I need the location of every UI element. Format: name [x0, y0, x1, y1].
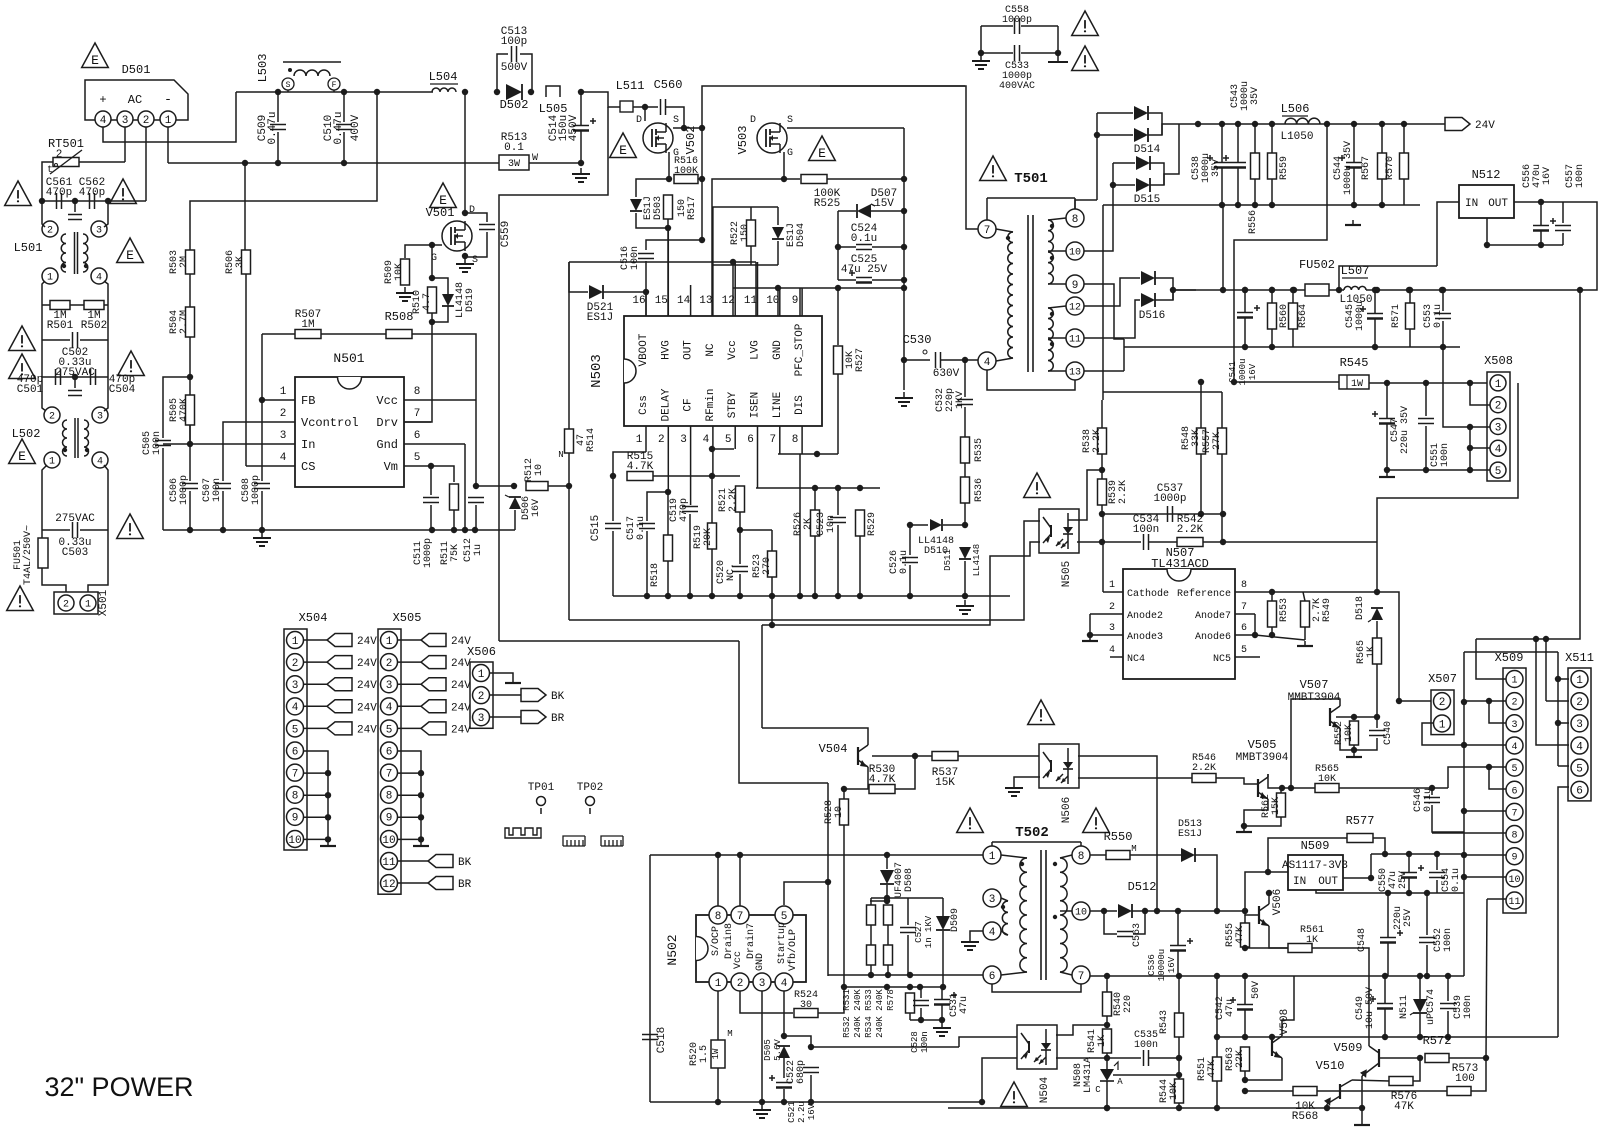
- label C524: [851, 223, 878, 245]
- wire x1558 wire: [1557, 652, 1559, 766]
- capacitor Y-cap: [68, 215, 82, 220]
- junction: [901, 176, 907, 182]
- junction: [187, 527, 193, 533]
- T502 pin 3: [983, 889, 1001, 907]
- svg-text:1: 1: [715, 978, 722, 990]
- label R561: [1300, 925, 1324, 946]
- wire c515 leads: [612, 476, 614, 521]
- resistor R539 2.2K: [1098, 479, 1107, 505]
- wire c536 b: [1177, 951, 1179, 976]
- wire C514 leads: [580, 92, 582, 125]
- capacitor C532 220p: [957, 400, 973, 405]
- wire n512 in wire: [1437, 202, 1459, 266]
- label C505: [142, 431, 163, 455]
- svg-text:X507: X507: [1428, 672, 1457, 686]
- connector X508: [1484, 354, 1513, 481]
- wire c526 t: [909, 525, 911, 555]
- diode D513 ES1J: [1181, 848, 1195, 862]
- svg-text:12: 12: [382, 879, 395, 891]
- wire c558 top2: [1021, 25, 1058, 27]
- ground gnd x505: [413, 841, 429, 846]
- label C513v: [501, 62, 528, 74]
- label R538: [1082, 429, 1103, 453]
- junction: [1198, 379, 1204, 385]
- wire r567 l: [1381, 124, 1383, 153]
- label R524: [794, 990, 818, 1011]
- junction rail 1037: [1382, 1034, 1388, 1040]
- inductor L507: [1344, 286, 1366, 290]
- wire mid stub2: [74, 377, 76, 388]
- wire c533 row: [981, 52, 1013, 54]
- label R559: [1279, 156, 1290, 180]
- svg-text:47u: 47u: [959, 996, 970, 1014]
- svg-text:3: 3: [122, 115, 129, 127]
- junction x828: [825, 879, 831, 885]
- wire v509 e gnd: [1361, 1076, 1363, 1120]
- capacitor C536 10000u 16V: [1170, 938, 1193, 951]
- svg-text:240K: 240K: [853, 989, 863, 1011]
- wire n504 tr emit: [982, 1058, 1017, 1102]
- resistor R501 1M: [50, 301, 70, 310]
- svg-text:10: 10: [766, 295, 779, 307]
- IC N507: [1123, 569, 1235, 679]
- svg-text:F: F: [332, 81, 337, 90]
- capacitor C541 1000u 16V: [1237, 305, 1260, 318]
- svg-text:Vm: Vm: [384, 460, 398, 474]
- capacitor C501 470p: [56, 369, 61, 385]
- svg-text:IN: IN: [1465, 198, 1478, 210]
- wire n504 tr col: [959, 1037, 1017, 1047]
- label C544: [1333, 141, 1354, 195]
- label C527: [914, 915, 934, 948]
- label D516: [1139, 310, 1165, 322]
- junction rail1108: [1104, 1105, 1110, 1111]
- junction x504 bus: [325, 792, 331, 798]
- svg-text:Css: Css: [638, 395, 650, 415]
- svg-text:5: 5: [292, 724, 299, 736]
- wire v507 emitter: [1340, 731, 1354, 750]
- label C538: [1191, 153, 1222, 183]
- svg-text:V507: V507: [1300, 678, 1329, 692]
- resistor R562 15K: [1277, 793, 1286, 817]
- wire r563 b: [1244, 1071, 1246, 1080]
- wire gate chain down: [431, 313, 433, 334]
- junction: [1382, 851, 1388, 857]
- wire r557 top row: [1103, 391, 1222, 393]
- svg-text:-: -: [164, 92, 172, 107]
- label R531 R533 R578 row: [842, 989, 896, 1011]
- svg-text:RT501: RT501: [48, 137, 84, 151]
- T501 phase dot primary: [1006, 236, 1010, 240]
- svg-text:4.7K: 4.7K: [869, 774, 896, 786]
- svg-text:E: E: [18, 449, 26, 464]
- label R506: [225, 250, 246, 274]
- resistor R564: [1289, 303, 1298, 329]
- svg-text:4: 4: [1576, 741, 1583, 753]
- svg-text:S: S: [673, 115, 679, 126]
- capacitor C510 0.47u: [336, 125, 352, 130]
- label N508: [1073, 1057, 1094, 1093]
- label C537: [1153, 483, 1186, 505]
- wire x509 p11 wire: [1487, 898, 1506, 900]
- wire c522 row right: [811, 1046, 959, 1048]
- wire x504 pin8 wire: [304, 816, 328, 818]
- svg-text:8: 8: [1072, 214, 1079, 226]
- svg-text:ES1J: ES1J: [587, 312, 613, 324]
- winding L502 left: [63, 420, 68, 456]
- wire anode67 join: [1254, 614, 1256, 635]
- svg-text:BR: BR: [458, 879, 472, 891]
- junction: [737, 852, 743, 858]
- svg-text:1: 1: [989, 851, 996, 863]
- junction on gnd rail: [769, 593, 775, 599]
- wire r561 right: [1312, 948, 1369, 1046]
- junction r540: [1104, 973, 1110, 979]
- pin 6 X509: [1506, 781, 1523, 798]
- junction on 24V rail: [1379, 121, 1385, 127]
- wire c557 l2: [1562, 233, 1564, 245]
- svg-text:R549: R549: [1322, 598, 1333, 622]
- wire n508 a row: [1113, 1074, 1179, 1076]
- connector X507: [1428, 672, 1457, 735]
- wire x505 pin11 wire: [398, 860, 428, 862]
- wire rail 1108: [948, 1107, 1362, 1109]
- wire t501 prim top: [996, 229, 1013, 232]
- winding L501 right: [83, 234, 88, 272]
- junction: [1176, 1105, 1182, 1111]
- svg-text:100K: 100K: [674, 166, 698, 177]
- svg-text:7: 7: [414, 408, 421, 420]
- junction: [907, 972, 913, 978]
- wire n504 led bot: [1056, 1057, 1107, 1059]
- label R542: [1177, 514, 1204, 536]
- pin 2 N503 (DELAY): [667, 426, 669, 492]
- T502 phase dots: [1020, 862, 1024, 866]
- svg-text:47K: 47K: [1235, 926, 1246, 944]
- junction: [1467, 380, 1473, 386]
- wire r577 right: [1373, 838, 1385, 854]
- junction: [907, 522, 913, 528]
- label C516: [620, 246, 641, 270]
- svg-text:0.1u: 0.1u: [1451, 868, 1462, 892]
- resistor R535: [961, 437, 970, 463]
- svg-text:6: 6: [414, 430, 421, 442]
- wire c554 b: [1436, 880, 1438, 893]
- junction: [1110, 182, 1116, 188]
- junction: [1467, 467, 1473, 473]
- wire RT501 left lead: [42, 162, 53, 201]
- wire r529 b: [859, 536, 861, 596]
- resistor R555 47K: [1241, 923, 1250, 947]
- svg-text:4.7K: 4.7K: [627, 461, 654, 473]
- wire d515 top row: [1113, 162, 1135, 164]
- wire c533 row2: [1021, 52, 1058, 54]
- symbol warning W12: [1028, 700, 1055, 725]
- label R549: [1312, 598, 1333, 622]
- svg-text:24V: 24V: [357, 680, 377, 692]
- wire rail 975 t502: [828, 974, 983, 976]
- wire rfmin stub2: [712, 448, 734, 450]
- wire x509 p8 wire: [1432, 832, 1506, 834]
- junction x504 bus: [325, 814, 331, 820]
- capacitor C546 0.1u: [1424, 798, 1440, 803]
- wire rect riser: [1096, 113, 1098, 200]
- L502 pin 4: [92, 452, 108, 468]
- svg-text:2: 2: [478, 691, 485, 703]
- junction on gnd rail: [709, 593, 715, 599]
- wire d508 down: [886, 885, 888, 901]
- junction: [835, 285, 841, 291]
- junction: [259, 527, 265, 533]
- svg-text:NC4: NC4: [1127, 654, 1145, 665]
- junction: [1279, 785, 1285, 791]
- wire x508 345 vert: [1469, 427, 1471, 470]
- junction rail 1037: [1417, 1034, 1423, 1040]
- junction on gnd rail 2: [1235, 202, 1241, 208]
- svg-text:5: 5: [1495, 466, 1502, 478]
- connector X501: [54, 592, 98, 614]
- capacitor C512 1u: [468, 498, 484, 503]
- label C521: [787, 1101, 817, 1123]
- junction: [699, 237, 705, 243]
- svg-text:R578: R578: [886, 989, 896, 1011]
- junction: [1288, 785, 1294, 791]
- junction: [1461, 874, 1467, 880]
- label C546: [1413, 788, 1434, 812]
- wire d507 right: [871, 210, 904, 212]
- wire ladder left: [837, 211, 839, 280]
- svg-text:24V: 24V: [357, 636, 377, 648]
- wire pin3 up: [104, 201, 108, 227]
- junction: [341, 160, 347, 166]
- svg-text:S: S: [787, 115, 793, 126]
- svg-text:10: 10: [834, 806, 845, 818]
- junction: [1406, 890, 1412, 896]
- svg-text:13: 13: [699, 295, 712, 307]
- wire v502 gate down: [668, 152, 670, 179]
- transistor V505 (V505): [1258, 774, 1268, 802]
- label C548b: [1393, 906, 1414, 930]
- label R555: [1225, 923, 1246, 947]
- wire c525 row: [838, 279, 856, 281]
- svg-text:3: 3: [292, 680, 299, 692]
- wire L501 pin4 down: [104, 281, 108, 305]
- label RT501 pin2: [56, 149, 63, 161]
- wire ref sense loop: [1377, 383, 1518, 592]
- svg-text:13: 13: [1069, 368, 1081, 379]
- label R501: [47, 310, 74, 332]
- wire C514 leads b: [580, 131, 582, 163]
- svg-text:8: 8: [386, 791, 393, 803]
- wire c543 l: [1237, 124, 1239, 162]
- wire n502 p3 down: [761, 991, 763, 1102]
- wire 893 ext: [1437, 892, 1464, 894]
- wire d509 t: [942, 898, 944, 916]
- wire r560 l: [1271, 290, 1273, 303]
- wire n504 led top: [1056, 1025, 1107, 1035]
- svg-text:N501: N501: [333, 351, 364, 366]
- junction: [1374, 287, 1380, 293]
- svg-text:D: D: [750, 115, 756, 126]
- label C550: [1378, 868, 1409, 892]
- svg-text:DELAY: DELAY: [660, 388, 672, 421]
- svg-text:N: N: [558, 450, 563, 460]
- wire n512 gnd: [1487, 218, 1563, 245]
- winding L501 left: [61, 234, 66, 272]
- junction: [1324, 1105, 1330, 1111]
- label C503a: [55, 513, 95, 525]
- wire x505 pin6 wire: [398, 772, 421, 774]
- svg-text:75K: 75K: [450, 544, 461, 562]
- resistor R517 150: [664, 195, 673, 219]
- svg-text:100n: 100n: [1575, 164, 1586, 188]
- junction: [835, 244, 841, 250]
- svg-text:1M: 1M: [301, 319, 314, 331]
- svg-text:RFmin: RFmin: [705, 388, 717, 421]
- label C506: [169, 475, 190, 505]
- diode D514a: [1134, 106, 1148, 120]
- svg-text:47u 25V: 47u 25V: [841, 264, 888, 276]
- wire rail 855 mid: [886, 855, 888, 869]
- resistor RT501: [53, 158, 79, 167]
- wire d516 out: [1155, 290, 1196, 300]
- ferrite bead L505: [546, 86, 560, 97]
- label R570: [1385, 156, 1396, 180]
- svg-text:D518: D518: [1355, 596, 1366, 620]
- pin 7 N501 (Drv): [404, 421, 431, 423]
- wire c558 frame2: [1057, 26, 1059, 53]
- svg-text:2: 2: [292, 658, 299, 670]
- wire c523 b: [837, 525, 839, 596]
- wire r578 c528 c531 bottom tie: [910, 1019, 942, 1021]
- svg-text:2.2K: 2.2K: [728, 488, 739, 512]
- svg-text:12: 12: [722, 295, 735, 307]
- wire sense R506 to return: [244, 163, 246, 258]
- junction: [1269, 344, 1275, 350]
- capacitor C504 470p: [91, 369, 96, 385]
- wire v504 c row: [872, 755, 932, 757]
- transistor V501 (V501): [442, 221, 472, 251]
- ground gnd t502 p4: [961, 936, 979, 950]
- svg-text:R571: R571: [1391, 304, 1402, 328]
- wire pin12 to rect: [1084, 278, 1140, 306]
- svg-text:500V: 500V: [501, 62, 528, 74]
- capacitor C516 100n: [638, 254, 654, 259]
- svg-text:MMBT3904: MMBT3904: [1236, 752, 1289, 764]
- wire x511 p5 wire: [1558, 765, 1569, 767]
- pin 9 X509: [1506, 848, 1523, 865]
- svg-text:2.2K: 2.2K: [1192, 763, 1216, 774]
- svg-text:275VAC: 275VAC: [55, 513, 95, 525]
- wire v507 col down: [1290, 707, 1292, 788]
- ground gnd v507: [1346, 752, 1362, 757]
- pin 8 X509: [1506, 826, 1523, 843]
- wire v505 col row: [1268, 774, 1315, 788]
- wire n502 p8 up: [717, 855, 719, 906]
- svg-text:E: E: [91, 53, 99, 68]
- wire d512 r: [1132, 910, 1245, 912]
- label C510v: [350, 114, 362, 141]
- junction: [1372, 344, 1378, 350]
- wire x509 p1 wire: [1476, 639, 1506, 679]
- wire c523 t: [837, 488, 839, 515]
- svg-text:2: 2: [386, 658, 393, 670]
- junction: [1175, 908, 1181, 914]
- wire c540 bot: [1354, 738, 1377, 750]
- wire r564 l2: [1292, 329, 1294, 347]
- junction: [462, 89, 468, 95]
- wire n502 p2 down: [740, 991, 793, 1013]
- wire t502 p6: [1001, 972, 1027, 975]
- wire N503 gnd rail: [613, 595, 1010, 597]
- svg-text:1000p: 1000p: [251, 475, 262, 505]
- svg-text:5: 5: [1576, 764, 1583, 776]
- resistor R527 10K: [834, 346, 843, 374]
- svg-text:Vcc: Vcc: [733, 951, 744, 969]
- junction: [1104, 1055, 1110, 1061]
- wire c532 m: [964, 407, 966, 437]
- wire c563 loop: [1104, 911, 1117, 934]
- svg-text:7: 7: [292, 769, 299, 781]
- svg-text:CF: CF: [683, 398, 695, 411]
- ground gnd r549: [1297, 641, 1313, 646]
- wire r520 down: [717, 1068, 719, 1102]
- junction: [1220, 539, 1226, 545]
- label C556: [1522, 164, 1553, 188]
- svg-text:5.6V: 5.6V: [773, 1039, 783, 1061]
- junction n508 gnd: [1104, 1105, 1110, 1111]
- resistor R544 10K: [1175, 1079, 1184, 1103]
- pin 3 X509: [1506, 715, 1523, 732]
- svg-text:100n: 100n: [152, 431, 163, 455]
- junction: [1241, 823, 1247, 829]
- wire c521 down: [783, 1089, 785, 1102]
- junction rail 1037: [1269, 1034, 1275, 1040]
- wire c546 t: [1431, 788, 1433, 795]
- inductor L506: [1285, 118, 1320, 124]
- resistor R538 2.2K: [1098, 428, 1107, 454]
- svg-text:N512: N512: [1472, 168, 1501, 182]
- junction: [1440, 344, 1446, 350]
- wire left rail: [41, 305, 43, 377]
- svg-text:24V: 24V: [357, 702, 377, 714]
- diode D509: [936, 916, 950, 930]
- junction: [884, 895, 890, 901]
- svg-text:R534: R534: [864, 1016, 874, 1038]
- pin 5 N501 (Vm): [404, 465, 431, 467]
- junction: [978, 50, 984, 56]
- junction: [242, 160, 248, 166]
- wire r544 t: [1178, 1058, 1180, 1079]
- label C535: [1134, 1030, 1158, 1051]
- label R521: [718, 488, 739, 512]
- svg-text:8: 8: [792, 434, 799, 446]
- capacitor C514 150u 450V: [573, 118, 596, 131]
- svg-text:270: 270: [762, 557, 773, 575]
- wire C502 row: [42, 339, 70, 341]
- wire r550 right: [1130, 854, 1181, 856]
- wire r577 left: [1268, 838, 1347, 872]
- connector X505: [378, 611, 421, 894]
- ground gnd c531: [933, 1022, 951, 1036]
- label R557: [1202, 429, 1223, 453]
- symbol warning W11: [1024, 473, 1051, 498]
- capacitor C513 100p: [512, 46, 517, 62]
- wire d504 leads2: [777, 241, 779, 265]
- wire c524 row: [838, 246, 856, 248]
- wire V501 gate: [405, 245, 442, 258]
- symbol warning W4: [9, 354, 36, 379]
